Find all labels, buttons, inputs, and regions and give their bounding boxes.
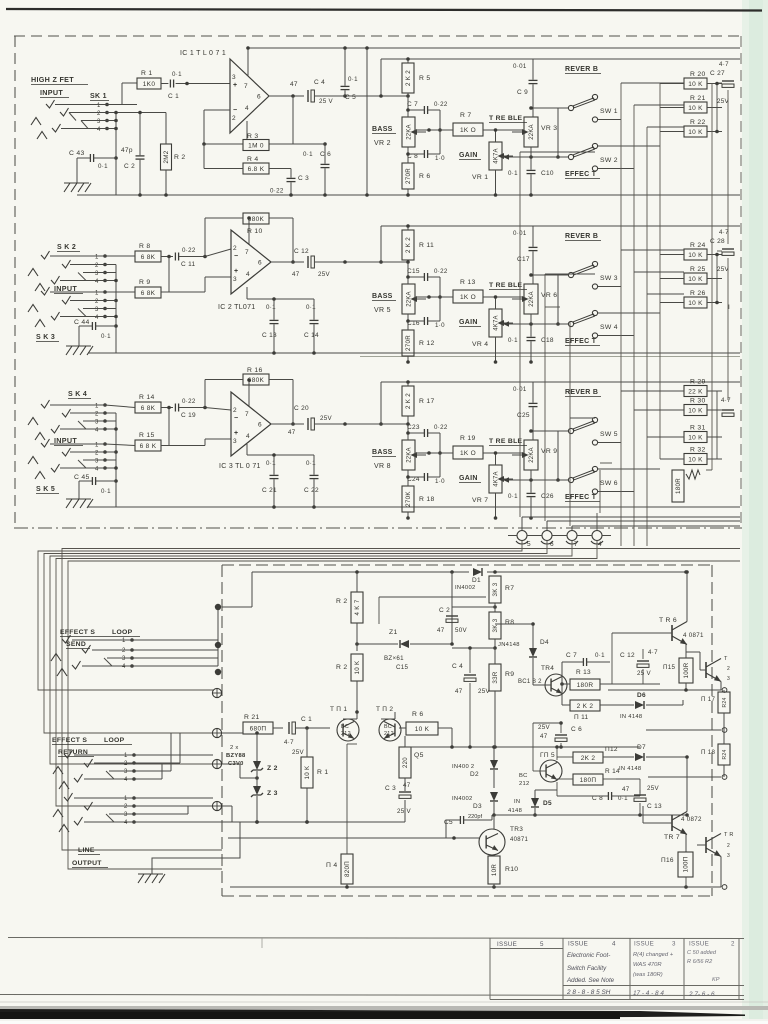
svg-text:R 29: R 29 <box>690 379 706 386</box>
capacitor C18 0.1 <box>508 314 554 364</box>
svg-text:1: 1 <box>124 753 128 759</box>
wire: R7/R8 node to C2 <box>452 606 495 608</box>
svg-text:1: 1 <box>95 443 99 449</box>
label GAIN <box>459 319 481 327</box>
wire: gain pot wiper to effect switch pivot <box>502 323 568 325</box>
svg-text:2: 2 <box>232 115 236 122</box>
svg-text:6: 6 <box>550 541 554 548</box>
svg-text:680K: 680K <box>248 216 265 223</box>
svg-text:EFFECT S: EFFECT S <box>52 737 87 744</box>
svg-text:0·22: 0·22 <box>182 398 196 405</box>
capacitor C3 0.22 <box>270 169 309 197</box>
resistor R 7 1K0 <box>415 112 524 136</box>
svg-text:R 17: R 17 <box>419 398 435 405</box>
svg-text:R 1: R 1 <box>141 70 152 77</box>
capacitor C 7 0.22 <box>407 101 448 130</box>
resistor R17 edge <box>701 690 730 730</box>
svg-text:R 1: R 1 <box>317 769 328 776</box>
svg-text:10 K: 10 K <box>688 105 703 112</box>
svg-text:S K 3: S K 3 <box>36 334 55 341</box>
svg-text:C 7: C 7 <box>407 101 418 108</box>
transistor TR9 right edge lower <box>697 832 734 887</box>
svg-text:1K O: 1K O <box>460 450 476 457</box>
svg-text:BZ×61: BZ×61 <box>384 655 404 662</box>
svg-text:0·1: 0·1 <box>172 71 182 78</box>
label EFFECTS LOOP SEND <box>60 629 140 649</box>
svg-text:R 5: R 5 <box>419 75 430 82</box>
svg-text:25V: 25V <box>647 785 659 792</box>
potentiometer VR 1 4K7A gain <box>427 128 513 197</box>
svg-text:0·22: 0·22 <box>270 188 284 195</box>
wire: treble node to reverb switch pivot <box>531 274 568 276</box>
svg-text:1·0: 1·0 <box>435 155 445 162</box>
svg-text:Π 4: Π 4 <box>326 862 337 869</box>
connector pin 5 <box>508 517 740 548</box>
svg-text:IC 1 T L 0 7 1: IC 1 T L 0 7 1 <box>180 50 226 57</box>
svg-text:IN4002: IN4002 <box>455 585 476 591</box>
svg-text:10 K: 10 K <box>688 276 703 283</box>
svg-text:4·7: 4·7 <box>648 649 658 656</box>
svg-text:0·22: 0·22 <box>182 247 196 254</box>
svg-text:22KA: 22KA <box>529 124 535 139</box>
wire: lower bottom rail <box>230 886 721 888</box>
svg-text:C25: C25 <box>517 412 530 419</box>
op-amp IC1 TL071 <box>180 50 269 133</box>
svg-text:T Π 2: T Π 2 <box>376 706 393 713</box>
wire: send pins to board <box>132 607 218 666</box>
svg-text:R 25: R 25 <box>690 266 706 273</box>
svg-text:Π15: Π15 <box>663 664 676 671</box>
resistor R8 68K <box>105 243 173 262</box>
potentiometer VR 7 4K7A gain <box>427 451 513 520</box>
svg-text:VR 3: VR 3 <box>541 125 557 132</box>
capacitor C45 0.1 <box>74 474 116 495</box>
resistor R10 10R <box>488 856 518 887</box>
wire: IC1 output <box>269 95 304 97</box>
svg-text:C 50 added: C 50 added <box>687 950 717 956</box>
resistor R8 3K3 <box>489 603 514 650</box>
resistor R 18 270R <box>402 470 435 520</box>
svg-text:C 11: C 11 <box>181 261 196 268</box>
svg-text:3: 3 <box>233 438 237 445</box>
svg-text:1K O: 1K O <box>460 127 476 134</box>
label SK5 <box>36 486 59 494</box>
transistor TR7 40872 <box>643 755 702 852</box>
svg-text:2: 2 <box>233 407 237 414</box>
svg-text:1·0: 1·0 <box>435 322 445 329</box>
resistor R9 68K <box>105 255 171 298</box>
svg-text:C10: C10 <box>541 170 554 177</box>
resistor R15 100R <box>663 658 693 692</box>
capacitor C1 4.7/25V <box>284 716 330 756</box>
resistor R16 100R <box>661 852 693 887</box>
wire: bus line A <box>38 541 522 690</box>
svg-text:47: 47 <box>288 429 296 436</box>
wire: treble node to reverb switch pivot <box>531 430 568 432</box>
svg-text:4: 4 <box>245 105 249 112</box>
svg-text:25 V: 25 V <box>319 98 334 105</box>
preamp section dashed border <box>14 36 742 528</box>
svg-text:C 45: C 45 <box>74 474 90 481</box>
wire: lower top rail <box>222 570 688 607</box>
svg-text:T R 6: T R 6 <box>659 617 677 624</box>
label TREBLE VR 3 <box>489 115 527 123</box>
svg-text:47: 47 <box>292 271 300 278</box>
svg-text:+: + <box>233 82 237 89</box>
svg-text:R 13: R 13 <box>460 279 476 286</box>
svg-text:EFFEC T: EFFEC T <box>565 171 597 178</box>
svg-text:R 7: R 7 <box>460 112 471 119</box>
svg-text:3: 3 <box>122 656 126 662</box>
svg-text:212: 212 <box>341 731 351 737</box>
capacitor C26 0.1 <box>508 470 554 520</box>
capacitor C4 47/25V <box>452 646 490 749</box>
svg-text:GAIN: GAIN <box>459 319 478 326</box>
svg-text:BASS: BASS <box>372 449 393 456</box>
transistor TR4 BC182 <box>518 665 567 696</box>
capacitor C 9 0.01 <box>513 59 538 117</box>
diode D4 IN4148 <box>498 622 549 672</box>
ground channel 2 <box>66 326 93 355</box>
svg-text:SW 3: SW 3 <box>600 275 618 282</box>
resistor R10 680K feedback <box>243 213 269 235</box>
wire: ch2 input feed y226 <box>381 225 740 227</box>
svg-text:SEND: SEND <box>66 641 86 648</box>
svg-text:R9: R9 <box>505 671 514 678</box>
svg-text:R 19: R 19 <box>460 435 476 442</box>
svg-text:R10: R10 <box>505 866 518 873</box>
svg-text:Added. See Note: Added. See Note <box>566 977 615 984</box>
svg-text:Q5: Q5 <box>414 752 424 759</box>
resistor R 20 10 K <box>660 71 722 89</box>
resistor R2 4K7 <box>336 570 363 651</box>
svg-text:WAS 470R: WAS 470R <box>633 962 662 968</box>
svg-text:25V: 25V <box>292 749 304 756</box>
wire: IC2 feedback loop <box>205 218 295 264</box>
resistor R7 3K3 <box>489 576 514 603</box>
bottom scan black band <box>0 1002 768 1024</box>
svg-text:3: 3 <box>727 853 730 859</box>
svg-text:GAIN: GAIN <box>459 152 478 159</box>
resistor R 6 270R <box>402 147 430 197</box>
svg-text:0·1: 0·1 <box>508 337 518 344</box>
svg-text:0·1: 0·1 <box>306 460 316 467</box>
svg-text:22 K: 22 K <box>688 388 703 395</box>
svg-text:17 - 4 - 8 4: 17 - 4 - 8 4 <box>633 990 664 997</box>
svg-text:2 K 2: 2 K 2 <box>577 703 594 710</box>
wire: R2 tap to R7 bottom <box>379 596 486 598</box>
svg-text:REVER B: REVER B <box>565 66 598 73</box>
switch SW 4 <box>568 310 617 338</box>
transistor TR5 BC212 <box>519 745 562 790</box>
wire: misc lower verticals <box>347 743 357 745</box>
svg-text:D7: D7 <box>637 744 646 751</box>
svg-text:1M 0: 1M 0 <box>248 142 264 149</box>
svg-text:1: 1 <box>122 638 126 644</box>
resistor R 25 10 K <box>660 266 722 284</box>
svg-text:IN: IN <box>514 799 520 805</box>
svg-text:R 30: R 30 <box>690 398 706 405</box>
resistor R 22 10 K <box>660 119 722 137</box>
svg-text:4 0872: 4 0872 <box>681 816 702 823</box>
capacitor C12 4.7/25V <box>616 649 660 684</box>
resistor R12 2K2 <box>557 746 622 763</box>
capacitor C4 47/25V electrolytic <box>290 79 334 105</box>
label LINE OUTPUT <box>72 847 108 868</box>
svg-text:6: 6 <box>258 260 262 267</box>
label REVERB <box>565 389 601 397</box>
svg-text:0·22: 0·22 <box>434 101 448 108</box>
capacitor C44 0.1 <box>74 319 116 340</box>
svg-text:C26: C26 <box>541 493 554 500</box>
top page edge line <box>6 9 762 11</box>
label EFFECT <box>565 338 600 346</box>
switch SW 6 <box>568 466 617 494</box>
svg-text:2: 2 <box>95 299 99 305</box>
svg-text:VR 7: VR 7 <box>472 497 488 504</box>
svg-text:LINE: LINE <box>78 847 95 854</box>
wire: switch output verticals to connector bus <box>520 152 612 526</box>
svg-text:2 8 - 8 - 8 5 SH: 2 8 - 8 - 8 5 SH <box>566 989 611 996</box>
ground channel 1 <box>64 158 91 192</box>
svg-text:0·1: 0·1 <box>101 488 111 495</box>
svg-text:7: 7 <box>574 541 578 548</box>
resistor R4 68K <box>204 144 291 174</box>
svg-text:2 K 2: 2 K 2 <box>405 70 412 86</box>
capacitor C2 47p <box>121 111 145 197</box>
svg-text:−: − <box>234 415 238 422</box>
svg-text:VR 5: VR 5 <box>374 307 391 314</box>
svg-text:10 K: 10 K <box>688 129 703 136</box>
svg-text:6: 6 <box>258 422 262 429</box>
capacitor C13 0.1 <box>262 299 279 355</box>
right page-edge green strip <box>742 0 768 1024</box>
svg-text:0·1: 0·1 <box>508 170 518 177</box>
svg-text:IN 4148: IN 4148 <box>619 766 641 772</box>
wire: treble node to reverb switch pivot <box>531 107 568 109</box>
svg-text:0·1: 0·1 <box>348 76 358 83</box>
svg-text:4: 4 <box>122 664 126 670</box>
op-amp IC2 TL071 <box>218 230 271 311</box>
svg-text:4 0871: 4 0871 <box>683 632 704 639</box>
svg-text:C 5: C 5 <box>345 94 356 101</box>
svg-text:0·1: 0·1 <box>303 151 313 158</box>
svg-text:2: 2 <box>124 804 128 810</box>
wire: ch1 input feed y59 <box>381 58 740 60</box>
svg-text:I: I <box>728 304 730 311</box>
svg-text:VR 1: VR 1 <box>472 174 488 181</box>
wire: long vertical x367 <box>366 48 368 195</box>
label EFFECT <box>565 494 600 502</box>
svg-text:C 4: C 4 <box>452 663 463 670</box>
connector pin 7 <box>558 526 740 548</box>
svg-text:C 3: C 3 <box>385 785 396 792</box>
svg-text:10 K: 10 K <box>688 434 703 441</box>
svg-text:10 K: 10 K <box>688 300 703 307</box>
svg-text:C17: C17 <box>517 256 530 263</box>
resistor R 29 22 K <box>660 379 722 397</box>
svg-text:2 K 2: 2 K 2 <box>405 237 412 253</box>
wire: lower-left ground row <box>222 821 405 823</box>
svg-text:R 2: R 2 <box>174 154 185 161</box>
ground channel 3 <box>66 481 93 508</box>
svg-text:2K 2: 2K 2 <box>581 755 596 762</box>
svg-text:R 16: R 16 <box>247 367 263 374</box>
capacitor C20 47/25V <box>288 405 332 436</box>
svg-text:R 8: R 8 <box>139 243 150 250</box>
diode D2 IN4002 <box>452 745 498 788</box>
capacitor C 28 4.7/25V <box>710 229 734 273</box>
svg-text:C 12: C 12 <box>620 652 635 659</box>
svg-text:25V: 25V <box>318 271 330 278</box>
svg-text:1: 1 <box>124 796 128 802</box>
transistor TR2 BC212 <box>376 706 401 741</box>
svg-text:Z1: Z1 <box>389 629 398 636</box>
svg-text:IN400 2: IN400 2 <box>452 764 474 770</box>
svg-text:INPUT: INPUT <box>40 88 63 97</box>
svg-text:C 4: C 4 <box>314 79 325 86</box>
svg-text:Electronic Foot-: Electronic Foot- <box>567 952 610 959</box>
resistor R9 33R <box>452 648 514 747</box>
svg-text:7: 7 <box>245 411 249 418</box>
wire: channel 1 +V top rail <box>248 47 740 49</box>
svg-text:JN4148: JN4148 <box>498 642 520 648</box>
svg-text:ISSUE: ISSUE <box>634 941 654 948</box>
resistor R 24 10 K <box>660 242 722 260</box>
wire: C20 onward ch3 <box>315 423 408 425</box>
svg-text:47: 47 <box>622 786 630 793</box>
diode D3 IN4002 <box>452 792 498 817</box>
svg-text:4: 4 <box>598 541 602 548</box>
label TREBLE VR 9 <box>489 438 527 446</box>
svg-text:270R: 270R <box>405 335 412 351</box>
capacitor C6 47/25V <box>533 721 582 747</box>
svg-text:4: 4 <box>124 820 128 826</box>
resistor R6 10K <box>399 711 452 747</box>
wire: SK4 commons to ground rail <box>105 413 118 507</box>
resistor R18 edge <box>701 730 730 777</box>
svg-text:0·1: 0·1 <box>306 304 316 311</box>
ground line output <box>138 822 240 883</box>
svg-text:2M2: 2M2 <box>163 150 170 163</box>
resistor R 5 2K2 <box>402 59 430 93</box>
svg-text:3: 3 <box>233 276 237 283</box>
potentiometer VR 8 22KA bass <box>402 416 426 470</box>
svg-text:0·1: 0·1 <box>98 163 108 170</box>
wire: C4 to bass network <box>315 95 408 97</box>
svg-text:0·01: 0·01 <box>513 63 527 70</box>
label EFFECTS LOOP RETURN <box>52 737 132 757</box>
wire: switch contacts to bus <box>598 442 621 444</box>
wire: IC2 pin3 input from R9 <box>205 276 231 278</box>
svg-text:40871: 40871 <box>510 837 529 843</box>
svg-text:T: T <box>724 656 728 662</box>
resistor R2 2M2 <box>161 113 186 197</box>
svg-text:BC: BC <box>519 773 528 779</box>
svg-text:270K: 270K <box>405 491 412 507</box>
svg-text:R 11: R 11 <box>419 242 434 249</box>
svg-text:4·7: 4·7 <box>719 61 729 68</box>
svg-text:C 27: C 27 <box>710 70 725 77</box>
resistor R14 68K <box>105 394 173 413</box>
svg-text:SW 5: SW 5 <box>600 431 618 438</box>
svg-text:1K0: 1K0 <box>143 81 156 88</box>
jack socket SK2 <box>28 244 107 291</box>
capacitor C23 0.22 <box>407 424 448 453</box>
capacitor C 8 1.0 <box>407 128 445 162</box>
svg-text:C 43: C 43 <box>69 150 85 157</box>
pcb pin connector P1 <box>212 688 221 697</box>
svg-text:R 10: R 10 <box>247 228 263 235</box>
capacitor C22 0.1 <box>304 455 319 509</box>
svg-text:10R: 10R <box>491 864 498 876</box>
svg-text:R 24: R 24 <box>690 242 706 249</box>
capacitor C24 1.0 <box>407 451 445 485</box>
op-amp IC3 TL071 <box>219 392 271 470</box>
label INPUT channel 3 <box>54 436 83 446</box>
svg-text:4: 4 <box>124 777 128 783</box>
wire: gain pot wiper to effect switch pivot <box>502 479 568 481</box>
wire: C19 to IC3 pin2 <box>179 408 231 411</box>
svg-text:47: 47 <box>540 733 548 740</box>
resistor R1 1K0 <box>137 70 161 89</box>
resistor R 17 2K2 <box>402 382 435 416</box>
zener Z2 <box>226 731 278 772</box>
svg-text:IN4002: IN4002 <box>452 796 473 802</box>
svg-text:820Π: 820Π <box>344 861 351 877</box>
wire: channel 1 ground rail <box>77 194 740 196</box>
svg-text:270R: 270R <box>405 168 412 184</box>
switch SW 3 <box>568 261 617 289</box>
potentiometer VR 5 22KA bass <box>402 260 426 314</box>
wire: mid rail y747 <box>405 746 640 748</box>
svg-text:Π 11: Π 11 <box>574 714 589 721</box>
svg-text:6 8K: 6 8K <box>141 405 156 412</box>
wire: bus line C <box>50 541 572 764</box>
wire: gain pot wiper to effect switch pivot <box>502 156 568 158</box>
svg-text:R 15: R 15 <box>139 432 155 439</box>
wire: C1 to IC1 pin3 <box>187 83 230 85</box>
svg-text:BASS: BASS <box>372 126 393 133</box>
svg-text:VR 9: VR 9 <box>541 448 557 455</box>
svg-text:(was 180R): (was 180R) <box>633 972 663 978</box>
svg-text:C 6: C 6 <box>320 151 331 158</box>
svg-text:2 x: 2 x <box>230 745 239 751</box>
capacitor C 27 4.7/25V <box>710 61 734 105</box>
resistor R4 820R <box>326 744 353 887</box>
svg-text:SW 6: SW 6 <box>600 480 618 487</box>
wire: IC2 output <box>271 261 304 263</box>
svg-text:2: 2 <box>124 761 128 767</box>
capacitor C10 0.1 <box>508 147 554 197</box>
svg-text:BC1 8 2: BC1 8 2 <box>518 679 542 685</box>
svg-text:C 21: C 21 <box>262 487 277 494</box>
wire: bus line B <box>44 541 547 733</box>
potentiometer VR 9 22KA treble <box>512 440 557 470</box>
svg-text:4148: 4148 <box>508 808 522 814</box>
wire: IC3 pin3 input from R15 <box>205 438 231 440</box>
svg-text:Π12: Π12 <box>605 746 618 753</box>
svg-text:0·1: 0·1 <box>508 493 518 500</box>
wire: Z1 row <box>357 643 398 645</box>
svg-text:R 20: R 20 <box>690 71 706 78</box>
wire: IC1 feedback to R3 <box>202 96 293 146</box>
junction node A <box>215 604 221 610</box>
diode D5 IN4148 <box>508 790 552 817</box>
wire: bus line E <box>62 549 740 851</box>
svg-text:47: 47 <box>455 688 463 695</box>
label BASS VR 8 <box>372 449 396 470</box>
